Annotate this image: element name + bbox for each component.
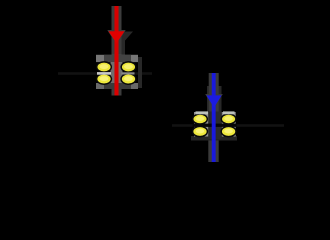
winding turn T1 lower-left — [97, 74, 112, 84]
core shadow right T1 — [138, 57, 142, 88]
conductor outline I2 — [209, 73, 219, 162]
winding turn T2 upper-left — [193, 114, 208, 124]
wire (secondary leads, T1) — [58, 72, 152, 75]
core right limb T2 — [222, 112, 236, 137]
core top highlight T2 — [196, 111, 209, 114]
shadow of arrow I1 — [108, 32, 133, 56]
highlight between windings T1 — [97, 72, 111, 75]
core top band T1 — [96, 55, 138, 62]
current arrow I1 (red) — [114, 6, 118, 96]
winding turn T2 upper-right — [221, 114, 236, 124]
winding turn T1 upper-left — [97, 62, 112, 72]
current arrow I2 (blue) — [212, 73, 216, 162]
shadow column behind arrow I2 — [207, 86, 222, 140]
winding turn T2 lower-left — [193, 126, 208, 136]
winding turn T1 lower-right — [121, 74, 136, 84]
core window column T1 — [111, 62, 123, 83]
winding turn T1 upper-right — [121, 62, 136, 72]
core bottom faint band T2 — [191, 136, 237, 141]
core left limb T2 — [194, 112, 208, 137]
core bottom band T1 — [96, 83, 138, 89]
black row gap T2 — [193, 124, 237, 127]
winding turn T2 lower-right — [221, 126, 236, 136]
conductor outline I1 — [112, 6, 122, 96]
core window dark column T2 — [208, 112, 221, 140]
wire (secondary leads, T2) — [172, 124, 284, 127]
